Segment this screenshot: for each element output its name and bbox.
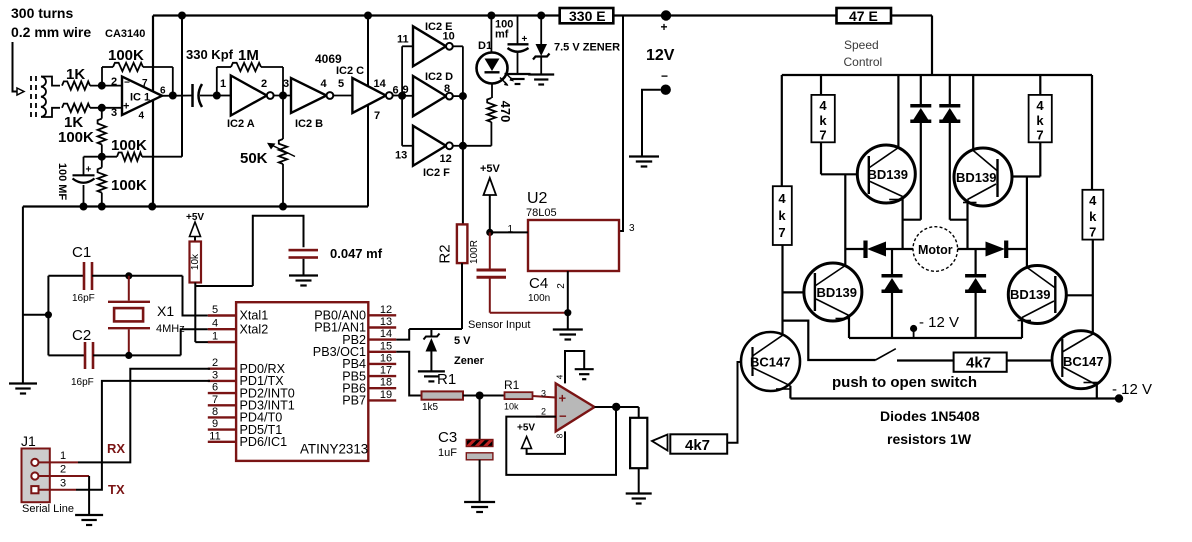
svg-text:3: 3 (212, 369, 218, 381)
node C1 crystal junction (125, 272, 132, 279)
svg-text:+: + (559, 391, 567, 406)
resistor 1M (217, 63, 283, 96)
svg-text:+5V: +5V (480, 163, 501, 175)
svg-text:BD139: BD139 (956, 170, 996, 185)
wire inverter input bracket (402, 46, 413, 146)
label -12V right (1112, 381, 1152, 398)
svg-text:7: 7 (374, 110, 380, 122)
label 0.2 mm wire (11, 24, 91, 40)
wire PB2 dogleg (396, 329, 409, 340)
wire drop through IC2C (367, 16, 369, 207)
label R2 (436, 244, 453, 263)
label 100R (469, 240, 480, 264)
wire crystal to Xtal1 (183, 276, 208, 316)
label 50K (240, 150, 268, 167)
svg-text:14: 14 (380, 328, 392, 340)
wire bottom -12V rail (790, 397, 1119, 399)
svg-text:3: 3 (629, 223, 635, 234)
svg-text:6: 6 (393, 85, 399, 97)
svg-text:7: 7 (778, 225, 785, 240)
node IC2A output junction (279, 92, 287, 100)
transistor BD139 top-left (857, 145, 915, 203)
node 100K bus junction (98, 203, 106, 211)
ground 5V zener (418, 371, 445, 381)
svg-text:PD6/IC1: PD6/IC1 (240, 435, 288, 449)
svg-text:6: 6 (212, 382, 218, 394)
wire H-bridge top rail (782, 74, 1092, 76)
svg-text:3: 3 (60, 477, 66, 489)
label C4 (528, 275, 550, 304)
svg-text:12V: 12V (646, 47, 675, 64)
svg-text:0.047 mf: 0.047 mf (330, 246, 383, 261)
svg-text:330 E: 330 E (569, 8, 606, 24)
node -12V terminal (661, 69, 671, 95)
label Diodes 1N5408 (880, 408, 980, 424)
wire rail to outer-left 4k7 (781, 75, 783, 186)
zener 7.5V (533, 16, 550, 75)
svg-text:BD139: BD139 (1010, 287, 1050, 302)
wire BC147R emitter (1096, 385, 1098, 399)
label -12V mid (919, 314, 959, 331)
svg-text:Sensor Input: Sensor Input (468, 319, 530, 331)
resistor 4k7 opamp (670, 434, 727, 454)
label Speed Control (844, 38, 883, 69)
label 1K top (66, 66, 85, 83)
svg-text:IC2 D: IC2 D (425, 71, 453, 83)
wire outer-right 4k7 down (1092, 240, 1094, 337)
diode motor-right (986, 241, 1027, 259)
wire top-right emitter (966, 200, 968, 250)
wire rail to inner-left 4k7 (820, 75, 822, 95)
wire top-left emitter (901, 197, 903, 250)
wire IC2E out (453, 46, 463, 96)
svg-text:C1: C1 (72, 244, 91, 261)
svg-text:4: 4 (778, 191, 786, 206)
capacitor C3 (466, 396, 493, 503)
svg-text:7: 7 (212, 394, 218, 406)
capacitor C2 (48, 342, 180, 369)
wire crystal to Xtal2 (181, 329, 208, 355)
svg-text:BD139: BD139 (868, 167, 908, 182)
resistor R2 100R (457, 224, 468, 263)
label push to open switch (832, 374, 977, 391)
resistor 4k7 inner-right (1029, 95, 1052, 143)
wire top bus left drop (152, 16, 154, 207)
wire IC2A out (274, 95, 291, 97)
inverter IC2 D (413, 71, 453, 116)
inverter IC2 E (397, 21, 455, 66)
wire top-left collector (897, 75, 899, 149)
transistor BC147 left (741, 332, 800, 391)
wire IC2F to R2 (462, 146, 464, 225)
svg-text:TX: TX (108, 482, 125, 497)
wire lower-left base (783, 291, 804, 293)
label +5V left (186, 212, 204, 223)
svg-text:4k7: 4k7 (966, 355, 991, 372)
svg-text:4k7: 4k7 (685, 437, 710, 454)
svg-text:R1: R1 (504, 378, 520, 392)
label 100K lower (111, 177, 147, 194)
svg-text:10k: 10k (504, 402, 519, 412)
arrow to 4k7 (652, 435, 668, 451)
wire IC2B out (333, 78, 352, 96)
ground zener (528, 75, 554, 85)
svg-text:3: 3 (541, 389, 546, 399)
svg-text:C2: C2 (72, 327, 91, 344)
wire C1C2 left bracket (23, 276, 49, 356)
wire op-amp pin8 +5V (527, 431, 565, 454)
svg-text:4: 4 (556, 374, 565, 379)
svg-text:8: 8 (444, 83, 450, 95)
node IC2A input junction (213, 92, 221, 100)
svg-text:BC147: BC147 (1063, 354, 1103, 369)
svg-text:100 MF: 100 MF (56, 163, 68, 201)
label CA3140 (105, 28, 145, 40)
svg-text:+: + (661, 20, 668, 34)
label 7.5 V ZENER (554, 42, 620, 54)
svg-text:8: 8 (556, 433, 565, 438)
svg-text:11: 11 (397, 34, 409, 46)
wire motor right node (958, 248, 986, 250)
label 300 turns (11, 5, 73, 21)
wire rail to inner-right 4k7 (1039, 75, 1041, 95)
diode upper-right (939, 75, 967, 220)
label +5V opamp (517, 423, 535, 434)
label RX (107, 441, 125, 456)
capacitor C4 (477, 232, 568, 312)
svg-text:IC2 A: IC2 A (227, 118, 255, 130)
micro ATINY2313 box (236, 302, 368, 461)
transistor BC147 right (1052, 331, 1110, 389)
svg-text:4: 4 (321, 78, 328, 90)
svg-text:100n: 100n (528, 293, 550, 304)
svg-text:10k: 10k (190, 253, 201, 270)
svg-text:5 V: 5 V (454, 335, 471, 347)
svg-text:8: 8 (212, 406, 218, 418)
svg-text:Diodes 1N5408: Diodes 1N5408 (880, 408, 980, 424)
svg-text:2: 2 (60, 464, 66, 476)
node +12V terminal (661, 10, 672, 34)
svg-text:11: 11 (209, 430, 220, 442)
svg-text:- 12 V: - 12 V (1112, 381, 1152, 398)
node 100MF bus junction (80, 203, 88, 211)
svg-text:4: 4 (212, 318, 218, 330)
zener 5V sensor (424, 329, 440, 371)
J1 pin stubs (39, 450, 90, 490)
svg-text:13: 13 (380, 316, 392, 328)
node sensor junction (476, 392, 484, 400)
wire IC2C out (393, 84, 409, 97)
svg-text:7: 7 (142, 78, 148, 89)
wire 4k7 to BC147 base (727, 362, 742, 443)
wire op-amp minus input (536, 416, 556, 418)
svg-text:Speed: Speed (844, 38, 879, 52)
svg-text:1k5: 1k5 (422, 402, 439, 413)
wire base to lower-left collector (844, 174, 846, 266)
transistor BD139 lower-left (804, 263, 862, 321)
wire left bus drop (22, 207, 24, 384)
resistor 4k7 outer-left (773, 186, 792, 245)
svg-text:4: 4 (139, 111, 145, 122)
resistor 4k7 inner-left (811, 95, 834, 143)
svg-text:U2: U2 (527, 190, 548, 207)
svg-text:3: 3 (111, 107, 117, 119)
svg-text:C4: C4 (529, 275, 548, 292)
wire op-amp feedback (506, 407, 616, 475)
wire inner-left 4k7 to base (821, 142, 857, 174)
resistor R1 1k5 (422, 391, 480, 399)
node 50K bus junction (279, 203, 287, 211)
transistor BD139 top-right (954, 148, 1012, 206)
svg-text:2: 2 (212, 357, 218, 369)
capacitor 330Kpf (193, 84, 217, 107)
ground 0.047mf (289, 276, 318, 286)
node top bus junction D1 (487, 12, 495, 20)
svg-text:PB7: PB7 (342, 394, 366, 408)
diode motor-left (866, 241, 914, 259)
resistor 47E (837, 8, 892, 24)
svg-text:IC2 B: IC2 B (295, 118, 323, 130)
wire -12V mid rail (849, 337, 1022, 339)
svg-text:15: 15 (380, 340, 392, 352)
wire 47E drop (931, 16, 933, 76)
svg-text:100K: 100K (111, 177, 147, 194)
ground 12V supply (629, 157, 659, 167)
wire motor left node (845, 248, 866, 250)
svg-text:X1: X1 (157, 303, 174, 319)
label 100K mid (111, 137, 147, 154)
label 12V (646, 47, 675, 64)
regulator U2 78L05 (528, 220, 619, 271)
resistor 470 (463, 98, 496, 146)
svg-text:ATINY2313: ATINY2313 (300, 442, 368, 457)
svg-text:−: − (124, 78, 130, 89)
svg-text:k: k (1036, 113, 1044, 128)
capacitor 100mf (508, 16, 529, 75)
svg-text:1uF: 1uF (438, 447, 457, 459)
svg-text:4: 4 (819, 98, 827, 113)
svg-text:7.5 V ZENER: 7.5 V ZENER (554, 42, 620, 54)
wire R2 to sensor node (409, 263, 462, 329)
label 1M (238, 47, 259, 64)
svg-text:18: 18 (380, 377, 392, 389)
wire collector node to switch (783, 321, 876, 360)
svg-text:1M: 1M (238, 47, 259, 64)
svg-text:300 turns: 300 turns (11, 5, 73, 21)
diode D1 LED (477, 16, 508, 99)
svg-text:D1: D1 (478, 40, 492, 52)
resistor output vertical (630, 407, 647, 494)
svg-text:4069: 4069 (315, 52, 342, 66)
connector J1 (22, 449, 50, 503)
wire lower-right emitter (1021, 318, 1023, 339)
svg-text:2: 2 (541, 407, 546, 417)
op-amp IC1 (111, 76, 166, 122)
resistor 330E (560, 8, 614, 24)
wire op-amp pin4 ground (565, 351, 584, 383)
svg-text:2: 2 (556, 283, 567, 289)
svg-text:2: 2 (261, 78, 267, 90)
svg-text:7: 7 (819, 128, 826, 143)
svg-text:Zener: Zener (454, 355, 485, 367)
svg-text:0.2 mm wire: 0.2 mm wire (11, 24, 91, 40)
ground C3 (464, 502, 495, 512)
svg-text:7: 7 (1036, 128, 1043, 143)
svg-text:78L05: 78L05 (526, 207, 557, 219)
node top bus junction A (178, 12, 186, 20)
svg-text:9: 9 (212, 418, 218, 430)
motor M1 (913, 227, 958, 272)
label C3 (438, 429, 457, 459)
switch push-to-open (876, 349, 954, 361)
resistor 100K horizontal (84, 153, 183, 161)
node bus junction x152 (148, 203, 156, 211)
wire +5V arrow opamp (522, 437, 532, 449)
svg-text:+: + (123, 101, 129, 113)
svg-text:k: k (778, 208, 786, 223)
potentiometer 50K (267, 96, 295, 207)
svg-text:Serial Line: Serial Line (22, 503, 74, 515)
wire IC2F out (453, 96, 463, 146)
svg-text:10: 10 (443, 31, 455, 43)
resistor R1 10k (480, 392, 556, 399)
wire base to lower-right collector (1026, 177, 1028, 268)
svg-text:R2: R2 (436, 244, 453, 263)
label 100K feedback (108, 47, 144, 64)
label 100 mf (495, 19, 513, 41)
svg-text:16: 16 (380, 352, 392, 364)
resistor 1K top (62, 81, 122, 89)
resistor 10k reset (190, 242, 202, 283)
wire bottom ground bus (23, 205, 368, 207)
svg-text:RX: RX (107, 441, 125, 456)
label 330 Kpf (186, 47, 234, 62)
wire +5V arrow to U2 pin1 (480, 163, 528, 235)
label resistors 1W (887, 431, 972, 447)
node top bus junction B (364, 12, 372, 20)
wire main top bus +12V rail (153, 14, 932, 16)
node pin2 junction (98, 82, 106, 90)
node pin3 junction (98, 104, 106, 112)
ground J1 (75, 515, 103, 525)
resistor 4k7 outer-right (1082, 190, 1103, 240)
ground left bus (9, 384, 37, 394)
coil core dashed lines (31, 76, 36, 117)
svg-text:100K: 100K (58, 129, 94, 146)
svg-text:100K: 100K (111, 137, 147, 154)
wire IC1 to IC2A (217, 95, 231, 97)
svg-text:16pF: 16pF (72, 293, 95, 304)
svg-text:4: 4 (1036, 98, 1044, 113)
svg-text:BC147: BC147 (750, 355, 790, 370)
wire BC147L emitter (789, 386, 791, 399)
svg-text:−: − (559, 409, 567, 424)
ground op-amp pin4 (575, 369, 594, 379)
label C1 (72, 244, 95, 304)
inverter IC2 F (395, 126, 453, 179)
svg-text:1: 1 (212, 331, 218, 343)
transistor BD139 lower-right (1008, 266, 1066, 324)
label J1 (21, 433, 36, 449)
label 0.047 mf (330, 246, 383, 261)
diode lower-left (882, 249, 903, 338)
label 100 MF (56, 163, 68, 201)
label 470 (498, 101, 513, 123)
label 1K bottom (64, 114, 83, 131)
svg-text:Xtal2: Xtal2 (240, 322, 269, 336)
capacitor 100MF (73, 157, 95, 207)
label Sensor Input (468, 319, 530, 331)
svg-text:12: 12 (440, 153, 452, 165)
node -12V tap (910, 325, 917, 338)
node bracket junction (45, 311, 52, 318)
svg-text:5: 5 (338, 78, 344, 90)
micro left pins (208, 304, 295, 449)
svg-text:Xtal1: Xtal1 (240, 309, 269, 323)
wire top-right collector (972, 75, 974, 151)
svg-text:+: + (522, 34, 528, 45)
capacitor C1 (48, 262, 182, 290)
node IC1 output junction (169, 92, 177, 100)
svg-text:100R: 100R (469, 240, 480, 264)
node IC2D output junction (459, 92, 467, 100)
resistor 4k7 switch (954, 353, 1007, 372)
label C4 pin2 (556, 283, 567, 289)
crystal X1 (108, 276, 150, 356)
inverter IC2 A (220, 76, 274, 131)
label 4069 (315, 52, 342, 66)
svg-text:5: 5 (212, 304, 218, 316)
svg-text:k: k (819, 113, 827, 128)
svg-text:4: 4 (1089, 193, 1097, 208)
wire +5V arrow left (190, 222, 201, 242)
label D1 (478, 40, 492, 52)
resistor 1K bottom (62, 104, 122, 112)
svg-text:BD139: BD139 (817, 285, 857, 300)
wire U2 pin2 (567, 271, 569, 329)
micro right pins (313, 304, 396, 408)
svg-text:Control: Control (844, 55, 883, 69)
svg-text:2: 2 (111, 76, 117, 88)
wire lower-left emitter (848, 316, 850, 339)
wire J1 pin2 ground (88, 476, 90, 515)
node IC2F output junction (459, 142, 467, 150)
svg-text:mf: mf (495, 29, 509, 41)
node mid junction (98, 153, 106, 161)
antenna pointer arrow (13, 42, 25, 95)
svg-text:12: 12 (380, 304, 392, 316)
wire 10k to pin1 (195, 283, 253, 343)
wire IC2D out (453, 95, 463, 97)
node U2 pin1 junction (486, 229, 493, 236)
capacitor 0.047mf (253, 216, 318, 286)
svg-text:- 12 V: - 12 V (919, 314, 959, 331)
label C2 (71, 327, 94, 388)
svg-text:3: 3 (283, 78, 289, 90)
label R1 10k (504, 378, 520, 412)
svg-text:330 Kpf: 330 Kpf (186, 47, 234, 62)
svg-text:7: 7 (1089, 225, 1096, 240)
svg-text:C3: C3 (438, 429, 457, 446)
svg-text:resistors 1W: resistors 1W (887, 431, 972, 447)
op-amp U3 (541, 374, 595, 438)
wire 4k7 to BC147R base (1007, 359, 1051, 361)
svg-text:CA3140: CA3140 (105, 28, 145, 40)
ground output resistor (626, 494, 652, 504)
resistor 100K upper vertical (98, 108, 106, 157)
svg-text:push to open switch: push to open switch (832, 374, 977, 391)
node top bus junction zener (537, 12, 545, 20)
